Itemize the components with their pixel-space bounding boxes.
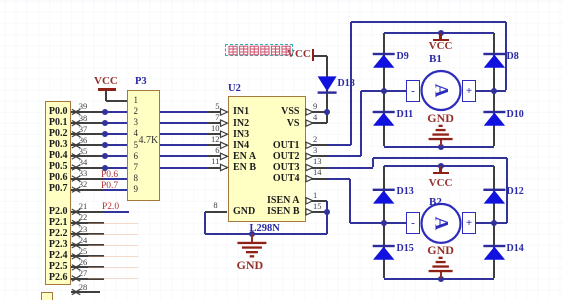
svg-text:A: A xyxy=(431,217,452,231)
svg-text:A: A xyxy=(431,84,452,98)
